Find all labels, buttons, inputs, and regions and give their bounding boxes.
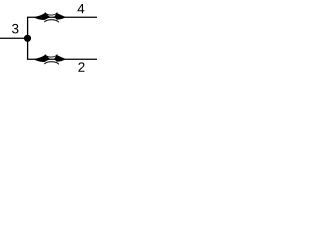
lower arc: [44, 62, 59, 65]
pin label 3: [12, 24, 18, 34]
arrowhead (right, points right): [54, 55, 66, 62]
node: junction dot: [24, 35, 31, 42]
arrowhead (left, points left): [33, 55, 50, 62]
pin label 2: [78, 62, 84, 71]
arrowhead (right, points right): [54, 13, 66, 20]
wire: top branch to pin 4: [27, 16, 97, 18]
upper arc: [45, 13, 57, 16]
spark gap SG1 (top branch): [33, 13, 66, 23]
arrowhead (left, points left): [33, 13, 50, 20]
lower arc: [44, 20, 59, 23]
upper arc: [45, 55, 57, 58]
wire: bottom branch to pin 2: [27, 58, 97, 60]
spark gap SG2 (bottom branch): [33, 55, 66, 65]
wire: vertical bus joining both branches: [27, 17, 29, 59]
pin label 4: [78, 4, 85, 13]
wire: left lead of net 3: [0, 37, 28, 39]
